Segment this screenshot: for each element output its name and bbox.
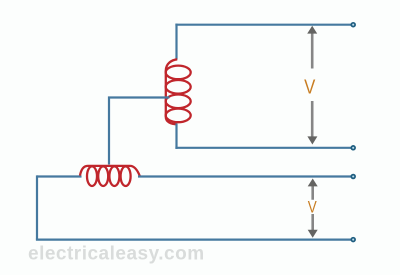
arrow lower V shaft [311,186,314,232]
arrow lower V head top [308,179,318,187]
arrow upper V head bottom [307,136,317,144]
arrow upper V shaft [311,33,314,137]
wire left rail [36,175,38,239]
terminal T4 [351,238,355,242]
winding L1 (vertical coil) [166,59,191,124]
svg-text:electricaleasy.com: electricaleasy.com [28,244,205,265]
wire W4 bottom [36,239,353,241]
svg-text:V: V [304,76,316,98]
terminal T2 [351,146,355,150]
winding L2 (horizontal coil) [80,166,140,186]
wire W3 right segment [138,175,353,177]
wire tap from L1 [109,98,169,165]
arrow upper V head top [307,26,317,34]
terminal T3 [351,175,355,179]
wire W3 left segment [37,175,82,177]
svg-text:V: V [308,199,317,217]
wire top lead to L1 [175,24,177,60]
wire top horizontal W1 [175,24,353,26]
wire bottom lead of L1 [175,124,177,149]
wire W2 horizontal [175,147,353,149]
arrow lower V head bottom [308,230,318,238]
terminal T1 [351,23,355,27]
